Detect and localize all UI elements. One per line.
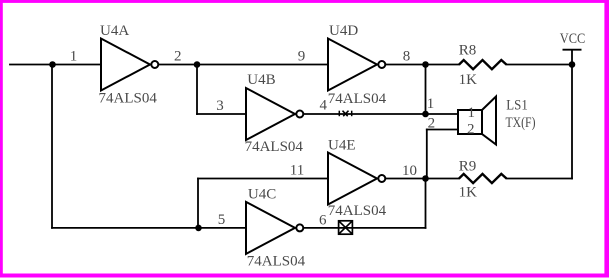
svg-text:2: 2 [467, 121, 475, 137]
wire U4E output pin 10 [386, 178, 426, 180]
wire left vertical branch [51, 65, 53, 228]
wire R9 left [426, 178, 460, 180]
svg-text:10: 10 [402, 163, 417, 179]
svg-text:U4C: U4C [248, 187, 276, 203]
wire LS1 pin 2 horizontal [427, 129, 458, 131]
wire R8 to VCC rail [507, 64, 573, 66]
junction node LS1 pin1 [422, 111, 429, 118]
svg-text:U4D: U4D [329, 23, 358, 39]
wire U4D output pin 8 [386, 64, 459, 66]
wire U4B input pin 3 [197, 113, 246, 115]
wire U4B output pin 4 [304, 113, 426, 115]
wire U4A output to U4D input [159, 64, 328, 66]
svg-text:74ALS04: 74ALS04 [247, 253, 306, 269]
op-amp U4E inverter triangle [328, 153, 385, 205]
power VCC symbol [563, 50, 582, 65]
svg-text:74ALS04: 74ALS04 [328, 91, 387, 107]
svg-text:8: 8 [403, 48, 411, 64]
svg-text:U4B: U4B [247, 72, 275, 88]
svg-text:74ALS04: 74ALS04 [99, 91, 158, 107]
svg-text:2: 2 [174, 48, 182, 64]
wire to LS1 pin 1 [426, 113, 459, 115]
svg-text:TX(F): TX(F) [506, 115, 536, 131]
resistor R9 [459, 174, 507, 183]
svg-text:U4A: U4A [100, 23, 129, 39]
no-ERC marker at pin 6 [339, 221, 353, 234]
label background of U4D 74ALS04 [327, 93, 389, 110]
junction node U4A output branch [194, 61, 201, 68]
op-amp U4B inverter triangle [246, 88, 303, 140]
wire vertical to U4E input [197, 179, 199, 228]
svg-text:5: 5 [218, 212, 226, 228]
wire U4E input pin 11 [198, 178, 328, 180]
svg-text:VCC: VCC [560, 31, 586, 47]
wire vertical U4E node to bottom [425, 179, 427, 228]
svg-text:1K: 1K [459, 184, 478, 200]
junction node VCC rail [569, 61, 576, 68]
svg-text:2: 2 [428, 115, 436, 131]
op-amp U4D inverter triangle [328, 39, 385, 91]
no-ERC marker at pin 4 (clipped by label background) [339, 111, 351, 117]
svg-text:1: 1 [70, 48, 78, 64]
junction node bottom branch [195, 225, 202, 232]
wire R9 right to VCC rail [507, 178, 573, 180]
svg-text:74ALS04: 74ALS04 [328, 203, 387, 219]
op-amp U4A inverter triangle [101, 39, 158, 91]
svg-text:1: 1 [427, 96, 435, 112]
svg-text:9: 9 [298, 48, 306, 64]
wire VCC rail vertical [571, 65, 573, 179]
junction node pin8/R8 [422, 61, 429, 68]
svg-text:LS1: LS1 [506, 98, 528, 114]
junction node input branch [49, 61, 56, 68]
wire input to U4A pin 1 [10, 64, 101, 66]
wire vertical to U4B input [196, 65, 198, 115]
svg-text:11: 11 [290, 163, 304, 179]
speaker LS1 symbol [458, 97, 496, 145]
svg-text:U4E: U4E [328, 138, 356, 154]
svg-text:74ALS04: 74ALS04 [245, 139, 304, 155]
junction node R9 left [422, 175, 429, 182]
op-amp U4C inverter triangle [246, 202, 303, 254]
svg-text:6: 6 [319, 212, 327, 228]
wire U4C output [304, 227, 426, 229]
resistor R8 [459, 60, 507, 69]
wire bottom row to U4C input [52, 227, 246, 229]
svg-text:R9: R9 [459, 158, 477, 174]
svg-text:1: 1 [468, 105, 476, 121]
wire LS1 pin 2 vertical [426, 130, 428, 179]
svg-text:1K: 1K [459, 72, 478, 88]
wire vertical pin8 node down [425, 65, 427, 115]
svg-text:4: 4 [320, 98, 328, 114]
svg-text:R8: R8 [459, 43, 477, 59]
svg-text:3: 3 [216, 98, 224, 114]
